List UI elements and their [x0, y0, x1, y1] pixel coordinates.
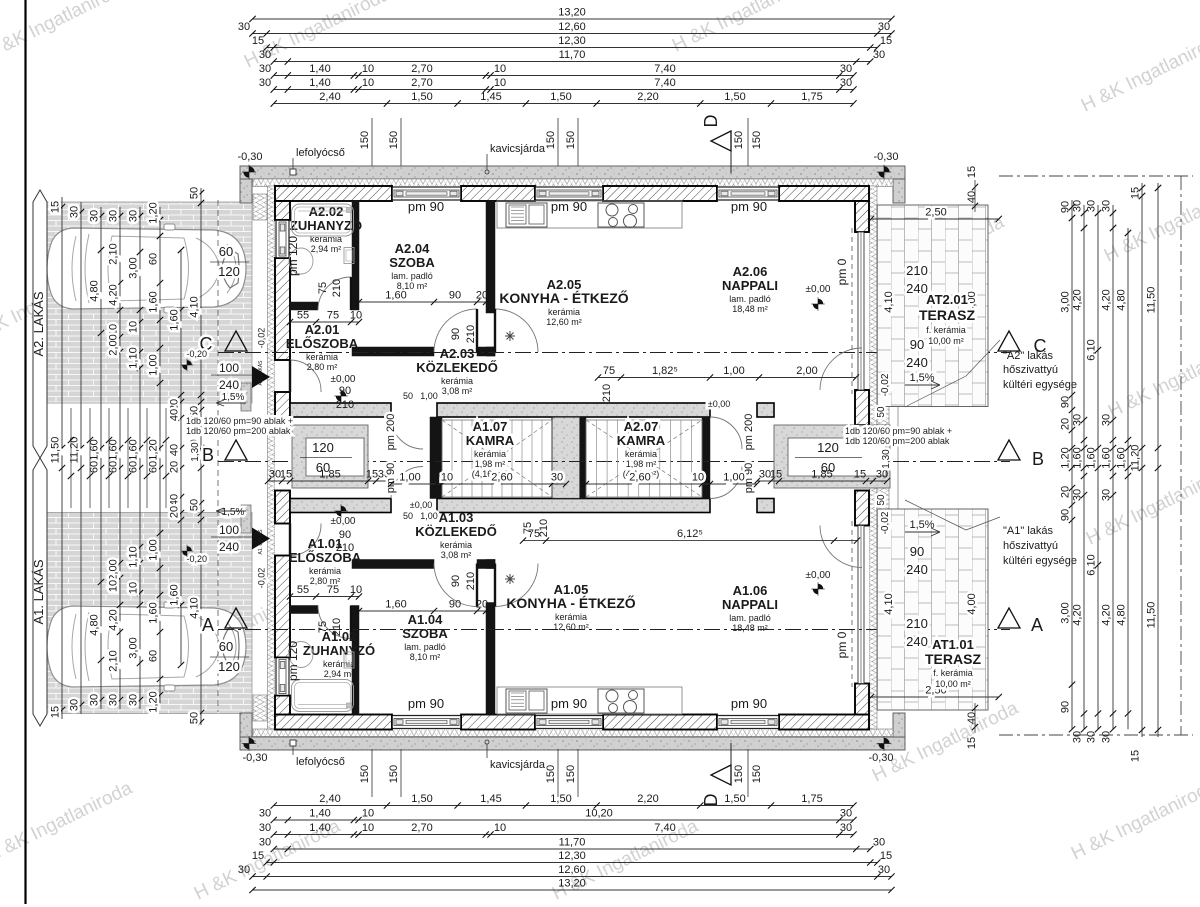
partition wall: [352, 560, 434, 569]
svg-text:1db 120/60 pm=200 ablak: 1db 120/60 pm=200 ablak: [845, 436, 950, 446]
svg-text:90: 90: [1060, 509, 1072, 521]
svg-text:30: 30: [1101, 731, 1113, 743]
svg-text:2,20: 2,20: [637, 91, 658, 103]
svg-text:A1. LAKÁS: A1. LAKÁS: [257, 529, 264, 555]
svg-text:1,98 m²: 1,98 m²: [475, 459, 506, 469]
svg-text:7,40: 7,40: [654, 822, 675, 834]
benchmark symbol: [877, 165, 891, 179]
car A1: [47, 602, 246, 691]
svg-text:1,60: 1,60: [385, 599, 406, 611]
section line A: [218, 629, 1010, 631]
svg-text:kerámia: kerámia: [548, 307, 580, 317]
entry arrow A1: [252, 528, 270, 550]
svg-text:2,80 m²: 2,80 m²: [307, 362, 338, 372]
door swing A1 szoba: [434, 564, 477, 607]
svg-text:4,20: 4,20: [108, 609, 120, 630]
svg-text:10: 10: [362, 63, 374, 75]
svg-text:D: D: [701, 115, 721, 128]
svg-text:1,60: 1,60: [148, 602, 160, 623]
svg-text:30: 30: [1086, 200, 1098, 212]
A2 LAKAS bracket: [33, 190, 47, 458]
svg-text:150: 150: [565, 131, 577, 149]
svg-text:3,08 m²: 3,08 m²: [441, 550, 472, 560]
svg-text:10: 10: [108, 580, 120, 592]
svg-text:50: 50: [403, 511, 413, 521]
svg-text:90: 90: [449, 290, 461, 302]
partition wall: [351, 606, 359, 614]
section marker D top: [711, 131, 731, 151]
svg-text:30: 30: [259, 49, 271, 61]
svg-text:11,70: 11,70: [559, 837, 586, 849]
svg-text:1,5%: 1,5%: [909, 372, 934, 384]
svg-text:1,60: 1,60: [1101, 447, 1113, 468]
kitchen sink A1: [506, 689, 547, 713]
wall top outer seg2: [461, 186, 535, 201]
svg-text:1,20: 1,20: [148, 691, 160, 712]
partition wall kamra west wall: [430, 417, 442, 499]
kitchen stove A2: [598, 203, 644, 227]
svg-text:4,20: 4,20: [108, 284, 120, 305]
interior dims A2 eloszoba: [290, 321, 359, 323]
svg-text:A2.02: A2.02: [309, 204, 344, 219]
svg-text:30: 30: [1072, 731, 1084, 743]
svg-text:50: 50: [189, 499, 201, 511]
svg-text:60: 60: [148, 650, 160, 662]
svg-text:240: 240: [219, 378, 239, 392]
svg-text:120: 120: [218, 264, 240, 279]
svg-text:30: 30: [840, 822, 852, 834]
svg-text:1,30: 1,30: [881, 449, 892, 469]
svg-text:30: 30: [840, 77, 852, 89]
svg-text:lam. padló: lam. padló: [729, 613, 771, 623]
svg-text:12,60: 12,60: [558, 864, 586, 876]
svg-text:210: 210: [538, 519, 550, 537]
svg-text:55: 55: [297, 584, 309, 596]
wall middle lower seg1: [290, 499, 391, 513]
right dimension chain columns: [1071, 200, 1073, 729]
svg-text:4,10: 4,10: [189, 597, 201, 618]
svg-text:±0,00: ±0,00: [806, 284, 831, 295]
partition wall A2 zuhanyzo/szoba: [352, 201, 359, 302]
svg-text:C: C: [1034, 336, 1047, 356]
svg-text:1,75: 1,75: [801, 91, 822, 103]
svg-text:18,48 m²: 18,48 m²: [732, 304, 768, 314]
svg-text:30: 30: [1101, 414, 1113, 426]
svg-text:±0,00: ±0,00: [331, 516, 356, 527]
svg-text:90: 90: [450, 575, 462, 587]
partition wall A1 szoba/konyha lower: [486, 603, 495, 715]
svg-text:30: 30: [1101, 489, 1113, 501]
svg-text:30: 30: [876, 469, 888, 481]
interior dims A2 szoba: [359, 301, 486, 303]
svg-text:4,80: 4,80: [1116, 289, 1128, 310]
svg-text:2,50: 2,50: [925, 207, 946, 219]
svg-text:4,10: 4,10: [883, 593, 895, 614]
svg-text:11,70: 11,70: [559, 49, 586, 61]
door swing A2 terrace: [820, 348, 862, 390]
svg-text:7,40: 7,40: [654, 63, 675, 75]
svg-text:240: 240: [906, 281, 928, 296]
svg-text:210: 210: [331, 279, 343, 297]
svg-text:kerámia: kerámia: [306, 352, 338, 362]
svg-text:150: 150: [751, 131, 763, 149]
svg-text:A1.07: A1.07: [473, 419, 508, 434]
svg-text:A2.03: A2.03: [440, 346, 475, 361]
svg-text:4,20: 4,20: [1101, 289, 1113, 310]
door swing kamra R bottom: [710, 467, 742, 499]
door swing A2 entry: [290, 360, 321, 392]
svg-text:1,00: 1,00: [420, 391, 438, 401]
kitchen counter A1: [497, 687, 682, 714]
svg-text:60: 60: [148, 461, 160, 473]
svg-text:kerámia: kerámia: [309, 566, 341, 576]
svg-text:-0,30: -0,30: [242, 752, 267, 764]
svg-text:1,00: 1,00: [148, 354, 160, 375]
kitchen counter A2: [497, 201, 682, 228]
benchmark symbol: [242, 165, 256, 179]
svg-text:3,08 m²: 3,08 m²: [442, 386, 473, 396]
svg-text:90: 90: [339, 529, 351, 541]
svg-text:10: 10: [128, 582, 140, 594]
svg-text:40: 40: [169, 494, 181, 506]
svg-text:lam. padló: lam. padló: [391, 271, 433, 281]
niche window box east: [774, 425, 890, 488]
svg-text:10: 10: [362, 822, 374, 834]
svg-text:30: 30: [128, 210, 140, 222]
svg-text:-0,02: -0,02: [257, 568, 267, 589]
svg-text:90: 90: [449, 599, 461, 611]
svg-text:30: 30: [873, 837, 885, 849]
wall bottom outer seg3: [603, 715, 717, 730]
svg-text:18,48 m²: 18,48 m²: [732, 623, 768, 633]
svg-text:10,20: 10,20: [585, 808, 613, 820]
svg-text:240: 240: [906, 562, 928, 577]
dims nappali A2: [598, 377, 856, 379]
walk strip right of building (niche zone): [877, 406, 898, 509]
svg-text:AT1.01: AT1.01: [932, 637, 974, 652]
svg-text:210: 210: [601, 384, 613, 402]
svg-text:50: 50: [189, 187, 201, 199]
fridge symbol A2: [505, 331, 515, 341]
svg-text:KAMRA: KAMRA: [466, 433, 515, 448]
gravel corner left top: [240, 179, 252, 203]
wall right outer A2 a: [855, 201, 869, 232]
svg-text:75: 75: [327, 310, 339, 322]
svg-text:150: 150: [751, 765, 763, 783]
svg-text:1,40: 1,40: [309, 63, 330, 75]
svg-text:55: 55: [297, 310, 309, 322]
stubs 150/150 bottom: [371, 749, 373, 797]
svg-text:30: 30: [1072, 200, 1084, 212]
svg-text:60: 60: [148, 253, 160, 265]
svg-text:150: 150: [388, 765, 400, 783]
wall top outer seg4: [779, 186, 869, 201]
svg-text:NAPPALI: NAPPALI: [722, 597, 778, 612]
gravel corner left bottom: [240, 713, 252, 737]
svg-text:pm 90: pm 90: [731, 199, 767, 214]
svg-text:30: 30: [259, 837, 271, 849]
svg-text:1,50: 1,50: [411, 793, 432, 805]
svg-text:1,45: 1,45: [480, 91, 501, 103]
svg-text:kültéri egysége: kültéri egysége: [1003, 379, 1077, 391]
svg-text:1,60: 1,60: [128, 439, 140, 460]
svg-text:kavicsjárda: kavicsjárda: [490, 759, 546, 771]
svg-text:12,30: 12,30: [558, 35, 586, 47]
svg-text:KÖZLEKEDŐ: KÖZLEKEDŐ: [416, 360, 498, 375]
svg-text:2,60: 2,60: [491, 472, 512, 484]
svg-text:pm 90: pm 90: [731, 696, 767, 711]
niche dims west: [268, 480, 390, 482]
section marker C right: [998, 331, 1020, 351]
svg-text:50: 50: [189, 712, 201, 724]
svg-text:1,40: 1,40: [309, 77, 330, 89]
partition wall: [477, 560, 495, 569]
top dimension chain block: [253, 18, 892, 20]
svg-text:10: 10: [350, 310, 362, 322]
svg-text:90: 90: [1060, 201, 1072, 213]
svg-text:1,5%: 1,5%: [222, 507, 245, 518]
svg-text:1,40: 1,40: [309, 808, 330, 820]
svg-text:40: 40: [966, 712, 978, 724]
svg-text:1,50: 1,50: [550, 793, 571, 805]
svg-text:lam. padló: lam. padló: [404, 642, 446, 652]
svg-text:10: 10: [692, 472, 704, 484]
window pm 90 top: [535, 186, 603, 201]
svg-text:ZUHANYZÓ: ZUHANYZÓ: [303, 643, 375, 658]
svg-text:240: 240: [906, 355, 928, 370]
svg-text:A1.04: A1.04: [408, 612, 443, 627]
svg-text:-0,30: -0,30: [237, 151, 262, 163]
fridge symbol A1: [505, 574, 515, 584]
washbasin A1: [289, 642, 313, 668]
svg-text:"A1" lakás: "A1" lakás: [1003, 525, 1053, 537]
wall left outer A1 a: [275, 696, 290, 715]
wall bottom outer seg1: [275, 715, 392, 730]
svg-text:75: 75: [522, 522, 534, 534]
svg-text:30: 30: [259, 822, 271, 834]
svg-text:210: 210: [906, 263, 928, 278]
svg-text:150: 150: [733, 131, 745, 149]
svg-text:40: 40: [966, 191, 978, 203]
svg-text:kerámia: kerámia: [441, 376, 473, 386]
wall middle upper seg2: [437, 403, 710, 417]
benchmark symbol: [242, 736, 256, 750]
svg-text:210: 210: [336, 399, 354, 411]
svg-text:30: 30: [89, 694, 101, 706]
svg-text:150: 150: [388, 131, 400, 149]
driveway paving A1: [35, 513, 252, 714]
svg-text:50: 50: [876, 494, 887, 506]
section marker A right: [998, 608, 1020, 628]
stubs 150/150 at D top: [747, 118, 749, 166]
svg-text:SZOBA: SZOBA: [402, 626, 448, 641]
svg-text:2,00: 2,00: [796, 365, 817, 377]
svg-text:40: 40: [169, 444, 181, 456]
door swing A2 zuhanyzo: [318, 277, 351, 310]
svg-text:±0,00: ±0,00: [708, 399, 730, 409]
svg-text:1,45: 1,45: [480, 793, 501, 805]
section marker A left: [225, 608, 247, 628]
svg-text:60: 60: [219, 639, 233, 654]
building floor slab: [275, 186, 869, 729]
window pm 90 top: [392, 186, 461, 201]
door swing A2 szoba: [434, 309, 477, 352]
svg-text:kerámia: kerámia: [625, 449, 657, 459]
svg-text:120: 120: [817, 440, 839, 455]
svg-text:A2.07: A2.07: [624, 419, 659, 434]
stubs 150/150 bottom: [557, 749, 559, 797]
wall left outer A2 b: [275, 258, 290, 360]
svg-text:150: 150: [733, 765, 745, 783]
svg-text:KÖZLEKEDŐ: KÖZLEKEDŐ: [415, 524, 497, 539]
svg-text:1,10: 1,10: [128, 546, 140, 567]
svg-text:2,60: 2,60: [629, 472, 650, 484]
svg-text:10: 10: [494, 77, 506, 89]
svg-text:2,00: 2,00: [108, 334, 120, 355]
svg-text:-0,02: -0,02: [880, 373, 891, 396]
stubs 150/150 top: [371, 118, 373, 166]
svg-text:1,60: 1,60: [1086, 447, 1098, 468]
wall bottom outer seg4: [779, 715, 869, 730]
svg-text:30: 30: [69, 699, 81, 711]
bathtub A2: [292, 204, 354, 236]
svg-text:50: 50: [876, 406, 887, 418]
svg-text:KAMRA: KAMRA: [617, 433, 666, 448]
svg-text:±0,00: ±0,00: [331, 374, 356, 385]
svg-text:lam. padló: lam. padló: [729, 294, 771, 304]
svg-text:75: 75: [317, 282, 329, 294]
partition wall: [290, 302, 318, 310]
svg-text:150: 150: [545, 131, 557, 149]
svg-text:90: 90: [910, 337, 924, 352]
svg-text:15: 15: [770, 469, 782, 481]
svg-text:15: 15: [280, 469, 292, 481]
insulation band right: [869, 186, 877, 729]
terrace glass door A1 (pm 0): [858, 526, 864, 684]
svg-text:pm 120: pm 120: [286, 236, 300, 276]
svg-text:90: 90: [1060, 701, 1072, 713]
svg-text:15: 15: [50, 706, 62, 718]
left dimension chain columns: [61, 197, 63, 719]
svg-text:4,20: 4,20: [1072, 604, 1084, 625]
svg-text:30: 30: [108, 210, 120, 222]
partition wall: [290, 606, 318, 614]
svg-text:4,80: 4,80: [1116, 604, 1128, 625]
kitchen sink A2: [506, 203, 547, 227]
svg-text:kültéri egysége: kültéri egysége: [1003, 555, 1077, 567]
A1 LAKAS bracket: [33, 458, 47, 726]
svg-text:1,20: 1,20: [148, 202, 160, 223]
svg-text:30: 30: [1072, 414, 1084, 426]
svg-text:pm 90: pm 90: [408, 199, 444, 214]
door swing A2 konyha: [495, 309, 538, 352]
svg-text:6,10: 6,10: [1086, 339, 1098, 360]
window pm 90 top: [717, 186, 779, 201]
svg-text:30: 30: [69, 206, 81, 218]
svg-text:pm 0: pm 0: [835, 258, 849, 285]
gravel walkway top (kavicsjarda): [240, 166, 905, 179]
svg-text:±0,00: ±0,00: [410, 500, 432, 510]
svg-text:210: 210: [336, 542, 354, 554]
section line C: [218, 352, 1010, 354]
svg-text:A: A: [1031, 615, 1043, 635]
partition wall kamra east wall: [702, 417, 710, 499]
svg-text:10: 10: [362, 77, 374, 89]
svg-text:1,50: 1,50: [411, 91, 432, 103]
svg-text:240: 240: [219, 540, 239, 554]
attic stair A2.07: [596, 420, 598, 497]
svg-text:11,50: 11,50: [1146, 287, 1158, 314]
section line B: [218, 461, 1010, 463]
wall middle upper seg3: [757, 403, 774, 417]
svg-text:20: 20: [1060, 486, 1072, 498]
svg-text:30: 30: [551, 472, 563, 484]
svg-text:7,40: 7,40: [654, 77, 675, 89]
svg-text:30: 30: [1072, 489, 1084, 501]
svg-text:75: 75: [317, 621, 329, 633]
door swing A1 terrace: [820, 526, 862, 568]
svg-text:3,00: 3,00: [128, 257, 140, 278]
svg-text:-0,02: -0,02: [880, 511, 891, 534]
partition wall kamra middle east edge: [580, 417, 586, 499]
wall middle lower seg2: [437, 499, 710, 513]
svg-text:kerámia: kerámia: [555, 612, 587, 622]
svg-text:1,85: 1,85: [319, 469, 340, 481]
svg-text:12,60 m²: 12,60 m²: [553, 622, 589, 632]
svg-text:-0,30: -0,30: [873, 151, 898, 163]
niche window box west: [292, 425, 368, 488]
door swing A1 entry: [290, 524, 321, 556]
svg-text:TERASZ: TERASZ: [925, 651, 981, 667]
kamra middle stipple wall: [552, 417, 580, 499]
svg-text:1,5%: 1,5%: [909, 519, 934, 531]
svg-text:15: 15: [880, 35, 892, 47]
svg-text:4,10: 4,10: [883, 291, 895, 312]
section marker B right: [998, 440, 1020, 460]
svg-text:4,10: 4,10: [189, 296, 201, 317]
svg-text:hőszivattyú: hőszivattyú: [1003, 364, 1058, 376]
svg-text:2,10: 2,10: [108, 243, 120, 264]
svg-text:1,20: 1,20: [148, 439, 160, 460]
section marker D bottom: [711, 765, 731, 785]
svg-text:10: 10: [494, 63, 506, 75]
svg-text:2,20: 2,20: [637, 793, 658, 805]
benchmark symbol: [877, 736, 891, 750]
svg-text:4,80: 4,80: [89, 614, 101, 635]
door swing kamra L bottom: [391, 467, 423, 499]
svg-text:pm 200: pm 200: [385, 414, 397, 451]
wall middle lower seg3: [757, 499, 774, 513]
B-band companion chain lines left: [70, 408, 72, 508]
svg-text:ZUHANYZÓ: ZUHANYZÓ: [290, 218, 362, 233]
svg-text:15: 15: [854, 469, 866, 481]
svg-text:15: 15: [366, 469, 378, 481]
svg-text:SZOBA: SZOBA: [389, 255, 435, 270]
svg-text:1,00: 1,00: [723, 365, 744, 377]
svg-text:3,00: 3,00: [1060, 291, 1072, 312]
partition wall: [477, 347, 495, 356]
wall top outer seg1: [275, 186, 392, 201]
wall left outer A2 a: [275, 201, 290, 220]
partition wall A1 szoba/konyha stub: [486, 560, 495, 569]
svg-text:1,75: 1,75: [801, 793, 822, 805]
section line D top: [730, 150, 732, 173]
svg-text:lefolyócső: lefolyócső: [296, 756, 345, 768]
svg-text:2,70: 2,70: [411, 63, 432, 75]
kamra dims: [391, 483, 566, 485]
svg-text:1,00: 1,00: [420, 511, 438, 521]
svg-text:3,00: 3,00: [128, 637, 140, 658]
